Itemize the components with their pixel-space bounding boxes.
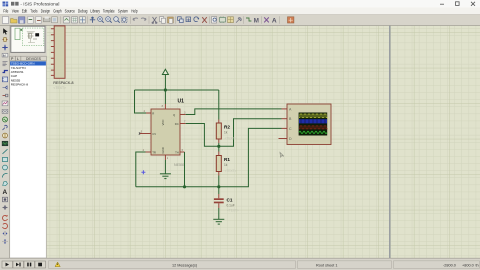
svg-text:<TEXT>: <TEXT> bbox=[225, 137, 237, 141]
wire left drop to pin4 bbox=[135, 90, 147, 113]
pin numbers bbox=[141, 105, 186, 160]
wire autorouter bbox=[246, 18, 251, 21]
svg-text:RESPACK-8: RESPACK-8 bbox=[11, 83, 29, 87]
sep bbox=[130, 16, 132, 24]
svg-text:TR: TR bbox=[152, 150, 156, 154]
bottom bar bbox=[0, 258, 480, 270]
svg-text:M: M bbox=[254, 17, 259, 24]
window buttons bbox=[440, 2, 475, 6]
svg-text:DC: DC bbox=[175, 122, 179, 126]
2d path bbox=[3, 181, 8, 185]
svg-text:lbl: lbl bbox=[3, 53, 6, 57]
svg-text:<TEXT>: <TEXT> bbox=[225, 169, 237, 173]
respack pins bbox=[51, 29, 54, 76]
wire Q to scope A bbox=[186, 109, 282, 115]
viewport dashed rect bbox=[22, 28, 43, 46]
unconnected CV pin tick bbox=[139, 132, 140, 134]
main toolbar bbox=[0, 15, 480, 26]
2d box bbox=[3, 157, 8, 161]
mirror x bbox=[3, 231, 8, 236]
mini respack bbox=[15, 28, 20, 39]
svg-text:-2800.0: -2800.0 bbox=[443, 263, 456, 267]
voltage probe mode bbox=[3, 125, 8, 130]
svg-text:Design: Design bbox=[41, 9, 51, 14]
svg-text:th: th bbox=[476, 263, 479, 267]
device pin mode bbox=[3, 94, 8, 97]
sep bbox=[87, 16, 89, 24]
grid toggle bbox=[72, 17, 78, 23]
svg-text:1k: 1k bbox=[224, 131, 228, 135]
sep bbox=[279, 16, 281, 24]
junction C1/bottom bbox=[217, 185, 220, 188]
svg-text:<TEXT>: <TEXT> bbox=[227, 209, 239, 213]
warning icon bbox=[55, 262, 60, 267]
undo bbox=[133, 18, 138, 20]
new file bbox=[3, 17, 9, 24]
block move bbox=[186, 17, 191, 22]
2d symbol bbox=[3, 197, 8, 202]
orange tool bbox=[288, 17, 294, 23]
scope channel labels bbox=[289, 107, 292, 141]
sep bbox=[209, 16, 211, 24]
title text bbox=[11, 2, 14, 6]
U1 pin stubs bbox=[140, 104, 186, 160]
P L DEVICES header bbox=[10, 56, 47, 61]
mirror y bbox=[3, 239, 8, 244]
copy bbox=[160, 17, 166, 24]
subcircuit mode bbox=[2, 77, 7, 82]
origin bbox=[80, 17, 86, 23]
ground under C1 bbox=[213, 219, 224, 224]
mini schematic bbox=[27, 32, 37, 43]
stop button bbox=[35, 261, 46, 268]
cursor arrow bbox=[3, 28, 8, 34]
print bbox=[43, 17, 50, 22]
svg-text:A: A bbox=[3, 189, 8, 196]
generator mode bbox=[3, 117, 8, 122]
svg-text:Root sheet 1: Root sheet 1 bbox=[316, 263, 338, 267]
svg-text:Tools: Tools bbox=[30, 9, 37, 14]
pan bbox=[90, 17, 95, 23]
terminal mode bbox=[3, 86, 8, 89]
app icon bbox=[3, 2, 9, 7]
svg-text:DEVICES: DEVICES bbox=[26, 57, 42, 61]
resistor R2 bbox=[218, 120, 220, 124]
oscilloscope pin stubs bbox=[279, 109, 288, 139]
property A bbox=[272, 18, 277, 25]
cut bbox=[152, 17, 157, 24]
block rotate bbox=[194, 17, 199, 22]
svg-text:CV: CV bbox=[152, 132, 156, 136]
trace A yellow square wave bbox=[299, 114, 328, 117]
packaging bbox=[228, 17, 234, 23]
wire TH drop bbox=[184, 152, 186, 187]
tape mode bbox=[2, 109, 8, 113]
overview window bbox=[11, 26, 45, 52]
wire TR drop bbox=[136, 152, 146, 187]
current probe mode bbox=[3, 133, 8, 138]
selected row bbox=[10, 61, 46, 65]
svg-text:VCC: VCC bbox=[161, 120, 165, 126]
zoom out bbox=[106, 17, 112, 23]
2d line bbox=[3, 149, 8, 154]
svg-text:RESPACK-8: RESPACK-8 bbox=[53, 81, 73, 85]
instruments mode bbox=[2, 141, 8, 146]
svg-text:R2: R2 bbox=[224, 125, 230, 130]
text script mode bbox=[3, 62, 8, 66]
message segment bbox=[49, 261, 296, 269]
svg-text:<TEXT>: <TEXT> bbox=[53, 86, 66, 90]
wire top rail bbox=[135, 89, 219, 91]
svg-text:R: R bbox=[152, 112, 154, 116]
zoom in bbox=[98, 17, 104, 23]
svg-text:View: View bbox=[12, 9, 19, 14]
search tag bbox=[254, 17, 259, 24]
svg-text:Debug: Debug bbox=[78, 9, 88, 14]
svg-text:L: L bbox=[17, 57, 19, 61]
IC U1 NE555 body bbox=[151, 109, 180, 155]
decompose bbox=[236, 18, 241, 23]
svg-text:R1: R1 bbox=[224, 157, 230, 162]
open folder bbox=[11, 19, 18, 24]
wire top rail to R2 bbox=[218, 90, 220, 120]
paste bbox=[168, 17, 174, 23]
svg-text:Source: Source bbox=[65, 9, 76, 14]
trace C red wave bbox=[299, 126, 328, 129]
wire label mode bbox=[2, 53, 8, 57]
svg-text:C1: C1 bbox=[227, 198, 233, 203]
svg-text:Template: Template bbox=[103, 9, 115, 14]
oscilloscope body bbox=[287, 104, 331, 145]
svg-text:U1: U1 bbox=[178, 99, 185, 105]
U1 inner pin names bbox=[152, 112, 179, 155]
sep bbox=[261, 16, 263, 24]
zoom all bbox=[114, 17, 120, 23]
pick parts bbox=[212, 17, 217, 23]
svg-text:A: A bbox=[272, 18, 277, 25]
mouse cursor bbox=[280, 153, 284, 158]
power VCC terminal bbox=[162, 69, 168, 90]
sep bbox=[148, 16, 150, 24]
wire DC to node and scope B bbox=[186, 119, 282, 147]
respack RESPACK-8 body bbox=[54, 26, 65, 78]
sep bbox=[243, 16, 245, 24]
canvas bbox=[47, 26, 480, 258]
export bbox=[36, 17, 41, 24]
wire pin8 drop bbox=[164, 90, 166, 104]
svg-text:System: System bbox=[118, 9, 128, 14]
wire bottom rail bbox=[136, 128, 282, 186]
rotate ccw bbox=[3, 223, 8, 228]
sep bbox=[175, 16, 177, 24]
scope screen bbox=[299, 113, 328, 136]
svg-text:NE555: NE555 bbox=[174, 163, 185, 167]
bus mode bbox=[3, 71, 8, 73]
block delete bbox=[202, 17, 207, 23]
zoom area bbox=[122, 17, 127, 22]
svg-text:Edit: Edit bbox=[22, 9, 28, 14]
redo bbox=[141, 18, 146, 20]
pause button bbox=[24, 261, 35, 268]
coords segment bbox=[394, 261, 480, 269]
2d circle bbox=[3, 165, 8, 170]
svg-text:- ISIS Professional: - ISIS Professional bbox=[20, 1, 59, 6]
sep bbox=[60, 16, 62, 24]
property X bbox=[264, 17, 269, 22]
2d arc bbox=[2, 173, 7, 177]
svg-text:1k: 1k bbox=[224, 163, 228, 167]
svg-text:Library: Library bbox=[90, 9, 100, 14]
capacitor C1 bbox=[218, 187, 220, 194]
svg-text:0.1uF: 0.1uF bbox=[227, 204, 235, 208]
step button bbox=[13, 261, 24, 268]
svg-text:+800.0: +800.0 bbox=[462, 263, 474, 267]
block copy bbox=[178, 17, 184, 23]
svg-text:Help: Help bbox=[131, 9, 138, 14]
junction R2/R1/DC bbox=[217, 145, 220, 148]
origin marker blue bbox=[141, 170, 145, 174]
device list bbox=[10, 61, 46, 258]
import bbox=[28, 17, 33, 24]
trace D green wave bbox=[299, 131, 327, 133]
sheet border line bbox=[389, 26, 391, 258]
left mode toolbar bbox=[0, 26, 10, 258]
svg-text:12 Message(s): 12 Message(s) bbox=[172, 263, 198, 267]
ground under U1 bbox=[160, 160, 171, 179]
title bar bbox=[0, 0, 480, 8]
trace B blue band bbox=[299, 119, 327, 123]
redraw bbox=[64, 17, 70, 23]
junction at VCC bbox=[164, 88, 167, 91]
2d text bbox=[3, 189, 8, 196]
root sheet segment bbox=[298, 261, 392, 269]
2d marker bbox=[3, 205, 8, 210]
play button bbox=[2, 261, 13, 268]
junction TH/bottom bbox=[183, 185, 186, 188]
resistor R1 bbox=[218, 146, 220, 151]
svg-text:TH: TH bbox=[175, 150, 179, 154]
menu bar bbox=[0, 8, 480, 15]
graph mode bbox=[2, 101, 8, 106]
svg-text:GND: GND bbox=[161, 147, 165, 153]
svg-text:Graph: Graph bbox=[53, 9, 62, 14]
save floppy bbox=[19, 17, 25, 23]
junction dot mode bbox=[2, 45, 7, 50]
make device bbox=[220, 17, 226, 23]
svg-text:C: C bbox=[289, 127, 292, 131]
svg-text:D: D bbox=[289, 137, 292, 141]
mark area bbox=[52, 17, 58, 23]
component mode bbox=[3, 38, 8, 42]
svg-text:File: File bbox=[3, 9, 9, 14]
rotate cw bbox=[2, 215, 7, 221]
